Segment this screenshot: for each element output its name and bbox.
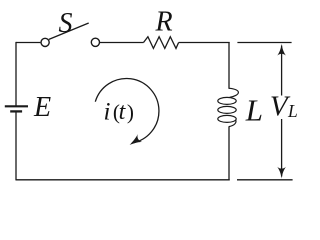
V_L measurement arrow (double headed) bbox=[277, 44, 286, 179]
wire resistor-to-corner bbox=[179, 42, 230, 44]
svg-text:i: i bbox=[104, 98, 111, 125]
svg-text:E: E bbox=[33, 92, 51, 123]
wire bottom bbox=[16, 179, 230, 181]
wire switch-to-resistor bbox=[100, 42, 144, 44]
current loop arrow i(t) bbox=[95, 78, 159, 148]
resistor R bbox=[144, 37, 179, 49]
switch S bbox=[41, 23, 100, 47]
node/reference line top for V_L bbox=[237, 42, 291, 44]
svg-text:t: t bbox=[119, 99, 127, 125]
wire right lower bbox=[228, 126, 230, 180]
wire left lower bbox=[15, 112, 17, 180]
svg-text:): ) bbox=[127, 100, 134, 124]
label i(t) bbox=[104, 98, 134, 125]
svg-text:R: R bbox=[155, 6, 173, 37]
wire left upper bbox=[15, 42, 17, 106]
svg-text:S: S bbox=[59, 8, 73, 39]
svg-text:L: L bbox=[287, 101, 298, 121]
label V_L bbox=[270, 91, 298, 123]
wire right upper bbox=[228, 42, 230, 89]
inductor L bbox=[218, 88, 239, 126]
battery E bbox=[5, 106, 28, 111]
svg-text:L: L bbox=[245, 93, 263, 128]
node/reference line bottom for V_L bbox=[237, 179, 293, 181]
wire top-left segment bbox=[16, 42, 41, 44]
